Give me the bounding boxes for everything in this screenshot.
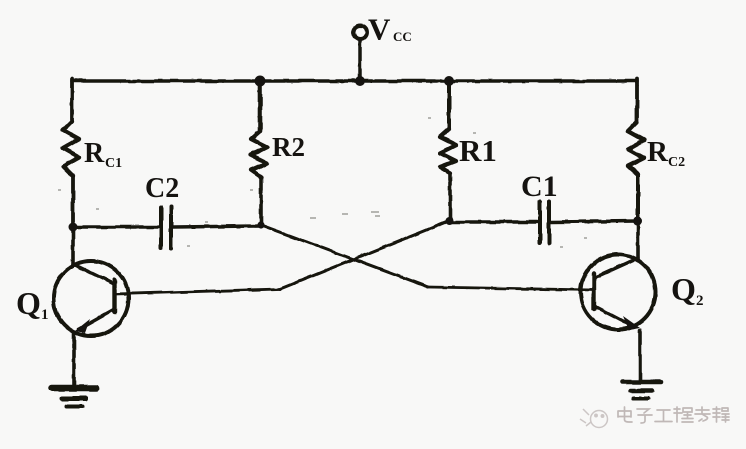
- wire left vertical upper: [70, 79, 74, 121]
- capacitor C2: [161, 207, 171, 249]
- watermark text 电子工程专辑: [618, 407, 729, 423]
- node R1 top junction dot: [444, 76, 454, 86]
- node A junction dot: [69, 223, 78, 232]
- resistor RC2: [628, 122, 644, 175]
- wire node A to Q1 collector: [71, 227, 75, 265]
- 电: [618, 407, 632, 422]
- node R2 top junction dot: [255, 76, 266, 87]
- transistor Q2 emitter diagonal: [594, 306, 634, 327]
- Vcc terminal circle: [354, 26, 367, 39]
- transistor Q1 emitter diagonal: [79, 309, 115, 329]
- node Vcc junction dot: [355, 76, 365, 86]
- wire R2 to node B2: [259, 177, 263, 225]
- 工: [655, 410, 672, 422]
- ground G1: [52, 385, 96, 392]
- capacitor C1: [540, 201, 549, 243]
- 子: [637, 409, 652, 423]
- resistor R2: [251, 131, 267, 177]
- svg-text:C1: C1: [105, 156, 122, 171]
- 辑: [713, 407, 729, 422]
- svg-text:C2: C2: [145, 173, 179, 204]
- transistor Q2 base bar: [592, 273, 596, 309]
- wire Q1 emitter down: [72, 333, 76, 386]
- node C junction dot: [446, 217, 454, 225]
- node D junction dot: [633, 217, 642, 226]
- wire R1 node to C1: [449, 220, 537, 224]
- svg-text:R1: R1: [459, 133, 497, 168]
- wire Q2 base horizontal: [428, 287, 594, 290]
- transistor Q1 circle: [54, 261, 129, 336]
- resistor R1: [440, 129, 456, 173]
- wire Q2 emitter down: [638, 330, 642, 380]
- wire diagonal R2 bottom to Q2 base level: [261, 225, 428, 287]
- wire R1 to node C: [448, 173, 452, 221]
- wire top supply rail: [72, 79, 637, 83]
- svg-text:R: R: [84, 138, 105, 169]
- svg-text:C1: C1: [521, 170, 558, 203]
- svg-text:R: R: [647, 136, 669, 168]
- wire R2 vertical upper: [258, 81, 263, 131]
- transistor Q1 emitter arrow: [75, 319, 90, 333]
- wire R1 vertical upper: [447, 81, 451, 129]
- wire Q1 base horizontal: [115, 289, 280, 294]
- wire node D to Q2 collector: [636, 221, 640, 259]
- svg-text:V: V: [368, 12, 391, 47]
- transistor Q2 emitter arrow: [623, 316, 640, 330]
- wire RC1 to node A: [71, 176, 75, 227]
- wire diagonal R1 bottom to Q1 base level: [280, 221, 449, 289]
- watermark logo: [580, 409, 608, 428]
- wire C1 to node D: [551, 221, 637, 222]
- wire right vertical upper: [635, 79, 639, 122]
- node B2 junction dot: [257, 221, 264, 228]
- svg-text:2: 2: [696, 293, 704, 309]
- transistor Q2 circle: [581, 255, 656, 330]
- svg-text:Q: Q: [16, 285, 41, 321]
- wire Vcc drop: [358, 39, 362, 81]
- svg-text:R2: R2: [272, 132, 305, 162]
- resistor RC1: [63, 121, 79, 176]
- 程: [674, 407, 693, 422]
- svg-text:C2: C2: [668, 155, 685, 170]
- ground G2: [623, 380, 661, 385]
- svg-text:1: 1: [41, 307, 49, 323]
- wire RC2 to node D: [636, 175, 640, 221]
- transistor Q2 collector diagonal: [594, 258, 638, 278]
- wire node A to C2: [73, 225, 158, 229]
- wire C2 to node B2: [173, 226, 261, 227]
- transistor Q1 collector diagonal: [73, 264, 114, 284]
- svg-text:Q: Q: [671, 271, 696, 307]
- 专: [695, 407, 710, 421]
- transistor Q1 base bar: [112, 280, 116, 312]
- svg-text:CC: CC: [393, 29, 412, 44]
